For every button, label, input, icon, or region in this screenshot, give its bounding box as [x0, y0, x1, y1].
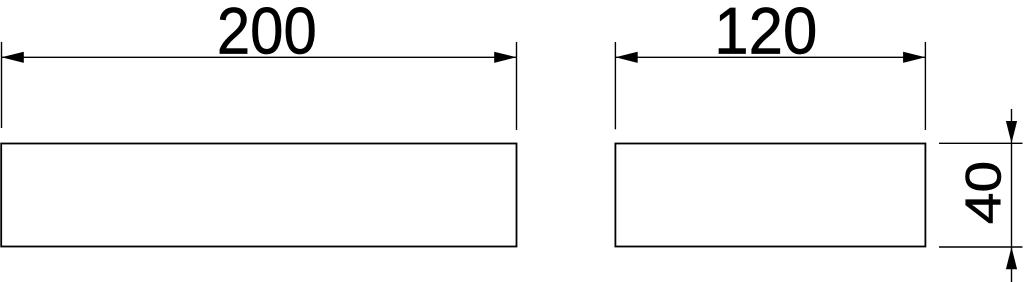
- dimension line 40 (vertical): [1011, 109, 1013, 282]
- dimension line 120: [615, 56, 925, 58]
- right plate outline (120 wide): [615, 144, 925, 247]
- dimension line 200: [2, 56, 517, 58]
- arrowhead bottom of 40 dim (pointing up): [1006, 247, 1017, 269]
- svg-text:40: 40: [956, 161, 1012, 224]
- arrowhead left of 200 dim: [2, 52, 24, 63]
- extension line top of 40 dim: [939, 142, 1023, 144]
- extension line right of 120 dim: [924, 42, 926, 130]
- left plate outline (200 wide): [1, 144, 516, 247]
- arrowhead left of 120 dim: [615, 52, 637, 63]
- arrowhead right of 200 dim: [494, 52, 516, 63]
- arrowhead top of 40 dim (pointing down): [1006, 121, 1017, 143]
- extension line left of 120 dim: [614, 42, 616, 129]
- svg-text:120: 120: [714, 0, 817, 68]
- extension line right of 200 dim: [516, 42, 518, 130]
- svg-text:200: 200: [217, 0, 317, 68]
- extension line bottom of 40 dim: [939, 246, 1023, 248]
- extension line left of 200 dim: [1, 42, 3, 128]
- arrowhead right of 120 dim: [903, 52, 925, 63]
